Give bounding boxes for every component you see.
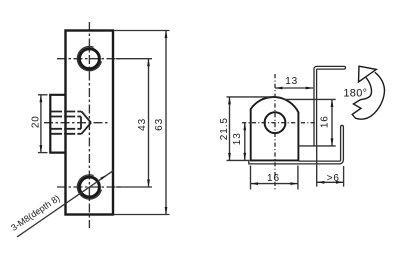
svg-text:16: 16 <box>320 115 331 128</box>
svg-text:43: 43 <box>137 118 148 131</box>
svg-text:>6: >6 <box>327 173 340 184</box>
svg-text:21.5: 21.5 <box>219 117 230 140</box>
svg-text:13: 13 <box>232 132 243 145</box>
svg-text:180°: 180° <box>343 87 367 99</box>
svg-text:63: 63 <box>154 118 165 131</box>
svg-text:13: 13 <box>285 76 298 87</box>
svg-text:16: 16 <box>267 173 280 184</box>
svg-text:20: 20 <box>31 115 42 128</box>
svg-text:3-M8(depth 8): 3-M8(depth 8) <box>9 193 61 233</box>
